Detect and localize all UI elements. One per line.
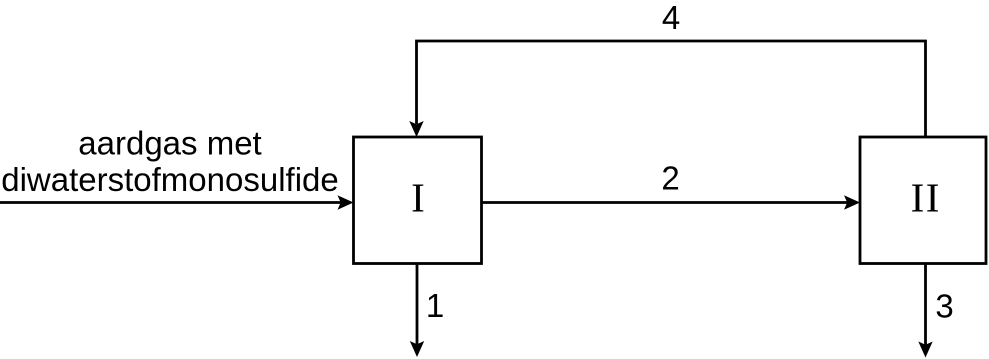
wire stream 3 down from box II [924, 264, 927, 346]
arrowhead stream 2 into box II [844, 195, 860, 209]
svg-text:II: II [911, 175, 941, 221]
wire feed line into box I [0, 201, 342, 204]
svg-text:2: 2 [661, 160, 679, 197]
box II [860, 137, 986, 264]
arrowhead stream 3 [918, 342, 932, 358]
svg-text:4: 4 [662, 0, 680, 36]
wire stream 2 from box I to box II [482, 201, 849, 204]
arrowhead feed into box I [338, 195, 354, 209]
box I [354, 137, 482, 264]
wire recycle stream 4 (box II top, up, left, down to box I top) [417, 41, 926, 137]
svg-text:1: 1 [426, 287, 444, 324]
wire stream 1 down from box I [416, 264, 419, 346]
svg-text:I: I [411, 175, 425, 221]
arrowhead stream 1 [410, 341, 424, 357]
svg-text:3: 3 [935, 288, 953, 325]
arrowhead stream 4 into box I top [409, 121, 423, 137]
svg-text:aardgas met: aardgas met [78, 125, 261, 162]
svg-text:diwaterstofmonosulfide: diwaterstofmonosulfide [1, 161, 339, 198]
